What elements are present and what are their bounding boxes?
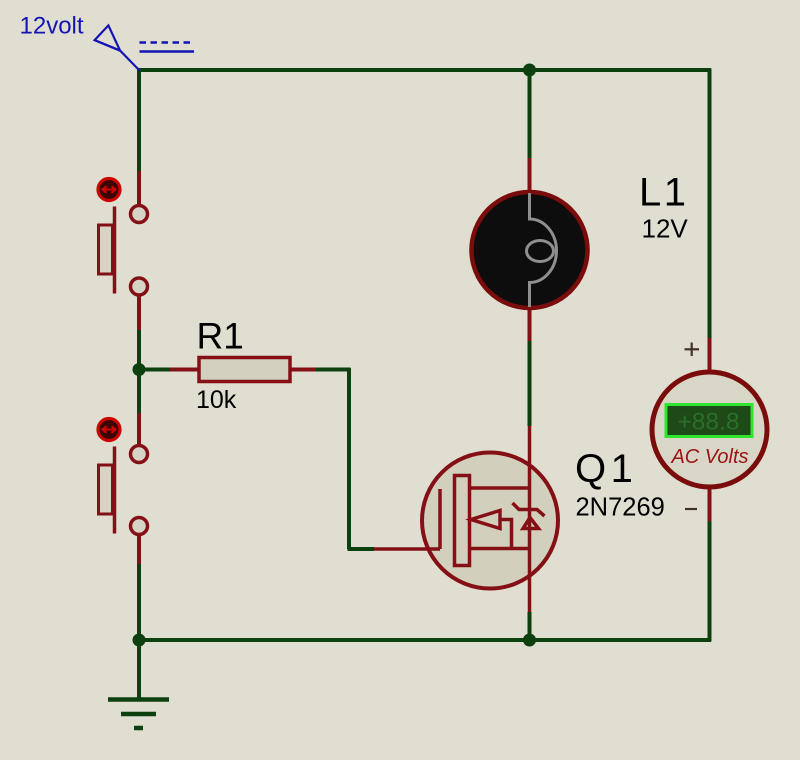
node junction top center [523, 64, 536, 77]
value 10k [196, 386, 237, 414]
pin lamp top [528, 158, 532, 195]
svg-text:2N7269: 2N7269 [576, 494, 665, 522]
channel bar [455, 476, 470, 566]
body diode cathode bar [513, 503, 545, 516]
svg-text:12V: 12V [642, 214, 689, 244]
resistor R1 [199, 358, 290, 382]
wire right rail lower [708, 521, 712, 642]
button SW2 [99, 446, 148, 535]
wire left rail middle [137, 330, 141, 413]
body diode triangle [523, 518, 539, 529]
node junction left R1 [133, 363, 146, 376]
pin lamp bottom [528, 305, 532, 341]
wire center rail top [528, 69, 532, 159]
pin button1 top [137, 171, 141, 205]
wire lamp to mosfet [528, 341, 532, 426]
transistor Q1 mosfet [374, 426, 558, 612]
value 12V [642, 214, 689, 244]
gate pin [374, 547, 440, 551]
button SW1 [99, 206, 148, 296]
label Q1 [575, 447, 637, 491]
voltmeter [652, 372, 767, 487]
svg-text:+88.8: +88.8 [678, 409, 740, 436]
pin meter minus [708, 486, 712, 521]
gate bar [438, 489, 442, 549]
drain vertical [528, 426, 532, 488]
wire top rail [137, 68, 711, 72]
pin button2 bottom [137, 535, 141, 564]
pin R1 right [290, 368, 316, 372]
drain bar [470, 486, 530, 490]
pin meter plus [708, 338, 712, 373]
substrate arrow [471, 511, 500, 529]
node junction left bottom [133, 634, 146, 647]
source vertical [528, 488, 532, 612]
voltmeter minus mark [685, 508, 697, 510]
ground [108, 700, 169, 729]
pin R1 left [170, 368, 199, 372]
svg-text:L1: L1 [639, 171, 689, 215]
wire gate horizontal green [348, 547, 375, 551]
wire left rail upper [137, 69, 141, 172]
svg-text:R1: R1 [197, 316, 244, 357]
label L1 [639, 171, 689, 215]
button SW2 actuator [98, 419, 120, 441]
wire R1 right green [316, 368, 351, 372]
source bar [470, 547, 532, 551]
label 12volt [20, 13, 84, 40]
pin button2 top [137, 413, 141, 445]
arrow tail [500, 520, 512, 549]
button SW1 actuator [98, 179, 120, 201]
voltmeter plus mark [685, 343, 700, 357]
lamp L1 [472, 192, 588, 308]
node junction bottom center [523, 634, 536, 647]
wire left rail lower [137, 564, 141, 699]
svg-text:10k: 10k [196, 386, 237, 414]
svg-text:12volt: 12volt [20, 13, 84, 40]
wire R1 left green [139, 368, 170, 372]
pin button1 bottom [137, 295, 141, 330]
power terminal 12volt symbol [95, 25, 194, 70]
wire gate vertical [347, 368, 351, 549]
svg-text:AC Volts: AC Volts [670, 446, 748, 468]
wire right rail upper [708, 69, 712, 339]
label R1 [197, 316, 244, 357]
wire mosfet source to bottom rail [528, 612, 532, 641]
svg-text:Q1: Q1 [575, 447, 637, 491]
value 2N7269 [576, 494, 665, 522]
wire bottom rail [137, 638, 711, 642]
